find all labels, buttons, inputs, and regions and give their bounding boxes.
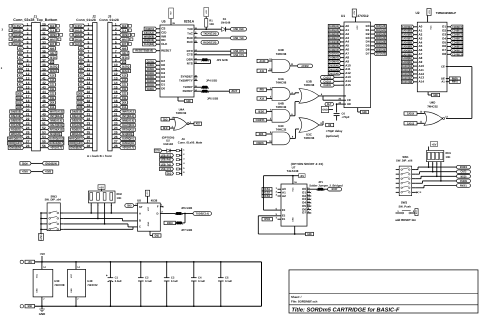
svg-text:/E36: /E36 (258, 109, 264, 113)
svg-text:GND: GND (147, 221, 150, 226)
svg-text:0.1uF: 0.1uF (145, 280, 152, 283)
svg-text:RESET55(B16): RESET55(B16) (135, 49, 153, 53)
U2 GND pin wire (428, 92, 440, 97)
power +5V to U7 VCC and E3 (264, 174, 306, 210)
svg-text:VCC: VCC (70, 273, 73, 278)
U2 address pins A0-A14 with labels (401, 25, 424, 84)
svg-text:JP6 5/2B: JP6 5/2B (181, 207, 192, 210)
svg-text:USB_RTS: USB_RTS (161, 153, 171, 157)
svg-text:GND: GND (186, 99, 190, 103)
svg-text:RXD0(C16): RXD0(C16) (203, 40, 216, 44)
svg-text:ROMEN: ROMEN (460, 165, 467, 169)
svg-text:D1B: D1B (17, 96, 21, 100)
svg-text:+5V(A17): +5V(A17) (122, 146, 134, 150)
svg-text:TXD0(C14): TXD0(C14) (203, 32, 216, 36)
svg-text:25: 25 (26, 131, 30, 135)
svg-text:45: 45 (42, 95, 46, 99)
svg-text:D7(A20): D7(A20) (72, 123, 82, 127)
svg-text:A3: A3 (19, 74, 22, 78)
svg-text:GND: GND (28, 304, 32, 308)
svg-text:17: 17 (87, 95, 91, 99)
svg-text:RESET: RESET (122, 33, 130, 37)
svg-text:50: 50 (42, 117, 46, 121)
power +5V label above U2 (427, 9, 431, 23)
IC U3E power unit 74HC08 (33, 262, 65, 307)
svg-text:M1: M1 (50, 60, 53, 64)
svg-text:8: 8 (115, 54, 117, 58)
svg-text:GND(B24): GND(B24) (70, 146, 82, 150)
svg-text:/CS3: /CS3 (264, 194, 270, 198)
svg-text:WAIT(A13: WAIT(A13 (122, 110, 134, 114)
svg-text:CTS: CTS (187, 53, 193, 57)
svg-text:D0A: D0A (122, 101, 126, 105)
svg-text:11: 11 (114, 68, 118, 72)
svg-text:CLK: CLK (122, 28, 126, 32)
svg-text:51: 51 (42, 122, 46, 126)
wire CTS (198, 54, 231, 56)
svg-text:CNT2: CNT2 (461, 170, 467, 174)
svg-text:U1: U1 (341, 14, 345, 18)
svg-text:29: 29 (42, 22, 46, 26)
resistor network RN2 10K (88, 191, 122, 207)
resistor network RN1 10K (426, 151, 451, 166)
svg-text:SW_DIP_x04: SW_DIP_x04 (45, 199, 62, 202)
svg-text:D6(B20): D6(B20) (11, 119, 21, 123)
svg-text:RN2: RN2 (117, 193, 123, 196)
svg-text:E3: E3 (282, 209, 286, 212)
diode D1 1N4148 (221, 18, 231, 32)
svg-text:+5V(A17): +5V(A17) (50, 146, 62, 150)
svg-text:Title: SORDm5 CARTRIDGE for BA: Title: SORDm5 CARTRIDGE for BASIC-F (292, 307, 400, 314)
svg-text:A7: A7 (80, 55, 83, 59)
svg-text:74HC08: 74HC08 (304, 136, 315, 140)
svg-text:GND: GND (70, 288, 73, 293)
svg-text:9: 9 (115, 58, 117, 62)
svg-text:D1B: D1B (78, 96, 82, 100)
svg-text:WR(A21): WR(A21) (72, 132, 82, 136)
svg-text:USB_RxD: USB_RxD (161, 158, 171, 162)
jumper JP5 on RxRDY (198, 90, 230, 101)
svg-text:3: 3 (88, 31, 90, 35)
svg-text:GND: GND (292, 217, 295, 222)
svg-text:SW_Push: SW_Push (398, 205, 411, 208)
svg-text:WAIT: WAIT (122, 37, 128, 41)
svg-text:(A11): (A11) (75, 37, 82, 41)
gate U3C 74HC08 (299, 118, 323, 141)
svg-text:A14: A14 (50, 74, 55, 78)
svg-text:6: 6 (27, 45, 29, 49)
svg-text:A8: A8 (80, 51, 83, 55)
U5 left control pins with labels (133, 27, 171, 53)
switch SW3 SW_DIP_x04 (44, 195, 64, 231)
svg-text:U2: U2 (415, 11, 419, 15)
U7 address inputs A0 A1 A2 (262, 187, 286, 198)
svg-text:22: 22 (26, 117, 30, 121)
svg-text:D: D (157, 212, 159, 215)
svg-text:A5: A5 (80, 64, 83, 68)
svg-text:NMI: NMI (50, 46, 55, 50)
svg-text:(+5V): (+5V) (75, 24, 82, 28)
svg-text:14: 14 (26, 81, 30, 85)
wire RxD to USB_TxD (198, 37, 231, 39)
svg-text:A0: A0 (19, 87, 22, 91)
U2 CE pin wire to U4D (441, 65, 472, 118)
net tie labels below J1 row1 (20, 161, 59, 165)
svg-text:53: 53 (42, 131, 46, 135)
net label RD input U3A (257, 88, 267, 91)
net label USB_TxD (231, 36, 247, 40)
svg-text:CE: CE (347, 99, 351, 102)
svg-text:D4(B19): D4(B19) (72, 110, 82, 114)
note OPTION D2 1N4148 (162, 135, 175, 146)
label RST right of SW2 (415, 209, 418, 216)
svg-text:A0: A0 (80, 87, 83, 91)
svg-text:74HC08: 74HC08 (276, 80, 287, 84)
gate U3B 74HC08 (299, 80, 346, 104)
svg-text:File: SORDM5F.sch: File: SORDM5F.sch (291, 300, 318, 304)
svg-text:RTS: RTS (187, 61, 193, 65)
svg-text:10K: 10K (209, 23, 214, 26)
svg-text:CE: CE (441, 65, 445, 68)
svg-text:OE: OE (347, 103, 351, 106)
svg-text:20: 20 (26, 108, 30, 112)
svg-text:GND(B24): GND(B24) (9, 146, 21, 150)
svg-text:8251A: 8251A (184, 20, 195, 24)
svg-text:16: 16 (114, 90, 118, 94)
+5V symbol on rail (40, 252, 45, 263)
svg-text:46: 46 (42, 99, 46, 103)
svg-text:INT(B14): INT(B14) (122, 114, 134, 118)
svg-text:HALT: HALT (50, 51, 56, 55)
svg-text:+5V: +5V (432, 143, 437, 146)
svg-text:74HC08: 74HC08 (276, 52, 287, 56)
svg-text:A1: A1 (19, 83, 22, 87)
svg-text:CAD14(B8): CAD14(B8) (402, 80, 412, 84)
wires SW1 rows to net labels with RN1 pulldowns (415, 162, 456, 188)
gate U3D 74HC08 (268, 48, 298, 72)
svg-text:12: 12 (26, 72, 30, 76)
net label USB_RxD (231, 27, 247, 31)
svg-text:15: 15 (114, 86, 118, 90)
svg-text:BUSRQ: BUSRQ (50, 64, 58, 68)
svg-text:D1A: D1A (122, 105, 126, 109)
svg-text:49: 49 (42, 113, 46, 117)
svg-text:CS3: CS3 (50, 92, 55, 96)
svg-text:25: 25 (114, 131, 118, 135)
svg-text:BOOT: BOOT (332, 187, 338, 191)
svg-text:6: 6 (115, 45, 117, 49)
net label A13F input U3D (257, 59, 268, 62)
net label BFR input U4A (161, 126, 170, 129)
svg-text:A14: A14 (122, 74, 127, 78)
svg-text:VCC: VCC (430, 25, 433, 30)
svg-text:16: 16 (87, 90, 91, 94)
capacitor C3 0.1uF (164, 261, 178, 307)
net label GND to U8 ST (125, 203, 138, 208)
svg-text:14: 14 (87, 81, 91, 85)
svg-text:48: 48 (42, 108, 46, 112)
U8 GND pin wire (150, 231, 161, 237)
IC U1 27C512 EPROM (341, 14, 371, 108)
svg-text:A1: A1 (80, 83, 83, 87)
U1 data pins D0-D7 output labels (366, 24, 387, 56)
svg-text:14: 14 (114, 81, 118, 85)
svg-text:(A12): (A12) (75, 33, 82, 37)
svg-text:RxRDY: RxRDY (183, 89, 193, 93)
connector J3 Conn_01x28 (99, 14, 135, 151)
svg-text:9: 9 (88, 58, 90, 62)
svg-text:+5V: +5V (28, 260, 33, 264)
svg-text:13: 13 (114, 77, 118, 81)
svg-text:USB_CTS: USB_CTS (234, 53, 244, 57)
svg-text:NMI(A14): NMI(A14) (122, 119, 134, 123)
svg-text:CNSW4: CNSW4 (460, 179, 468, 183)
svg-text:MREQ(B22): MREQ(B22) (69, 137, 82, 141)
svg-text:2: 2 (88, 27, 90, 31)
svg-text:34: 34 (42, 45, 46, 49)
svg-text:A4: A4 (19, 69, 22, 73)
IC U7 74LS138 decoder (281, 165, 307, 226)
svg-text:(A13): (A13) (75, 28, 82, 32)
svg-text:74HC02: 74HC02 (176, 111, 187, 115)
svg-text:28: 28 (26, 144, 30, 148)
svg-text:A15: A15 (260, 69, 265, 73)
svg-text:+70pF delay: +70pF delay (326, 129, 343, 133)
svg-text:GND: GND (36, 288, 39, 293)
svg-text:+5V: +5V (99, 186, 104, 189)
svg-text:D0: D0 (161, 87, 165, 91)
svg-text:26: 26 (87, 135, 91, 139)
diode D2 with GTB label (154, 149, 176, 153)
svg-text:40: 40 (42, 72, 46, 76)
svg-text:B: B (139, 220, 141, 223)
svg-text:CLK(B4): CLK(B4) (144, 42, 154, 46)
wires SW3 to U8 inputs with RN2 pullups (64, 203, 138, 229)
net label TXD0(C14) on TxC (201, 32, 219, 36)
svg-text:30: 30 (42, 27, 46, 31)
svg-text:52: 52 (42, 126, 46, 130)
power input port VCC circle (20, 260, 35, 264)
svg-text:RD(B21): RD(B21) (72, 128, 82, 132)
svg-text:RESET: RESET (161, 49, 171, 53)
svg-text:CS4: CS4 (122, 96, 127, 100)
svg-text:TMM23256BLP: TMM23256BLP (436, 11, 456, 15)
svg-text:A = back B = front: A = back B = front (87, 154, 112, 158)
svg-text:19: 19 (114, 104, 118, 108)
svg-text:A9: A9 (80, 46, 83, 50)
svg-text:B05: B05 (259, 132, 264, 136)
svg-text:18: 18 (26, 99, 30, 103)
U2 data pins O1-O8 labels (442, 25, 463, 57)
svg-text:10: 10 (114, 63, 118, 67)
svg-text:K: K (420, 191, 422, 194)
jumper JP4 on TxRDY (198, 86, 210, 90)
svg-text:D2B: D2B (78, 101, 82, 105)
svg-text:CS4: CS4 (50, 96, 55, 100)
svg-text:NMI(A14): NMI(A14) (50, 119, 62, 123)
svg-text:21: 21 (87, 113, 91, 117)
svg-text:20: 20 (87, 108, 91, 112)
svg-text:CS3: CS3 (122, 92, 127, 96)
svg-text:GND: GND (39, 312, 45, 316)
connector J2 Conn_01x28 (68, 14, 97, 151)
svg-text:(+5V): (+5V) (14, 24, 21, 28)
svg-text:38: 38 (42, 63, 46, 67)
net label TXD0(C14) from JP6 (193, 212, 212, 216)
svg-text:(optional): (optional) (326, 134, 339, 138)
svg-text:BUSAK: BUSAK (50, 69, 57, 73)
svg-text:+5VA: +5VA (22, 170, 28, 174)
svg-text:GND: GND (127, 204, 131, 208)
svg-text:add RESET btn: add RESET btn (395, 218, 416, 222)
connector J4 Conn_01x06_Mate (178, 137, 203, 176)
svg-text:5: 5 (27, 40, 29, 44)
svg-text:11: 11 (87, 68, 91, 72)
svg-text:Sheet: /: Sheet: / (291, 295, 302, 299)
power +5V label above U5 (169, 8, 176, 25)
svg-text:HALT(B15: HALT(B15 (122, 123, 134, 127)
note +70pF delay optional (326, 123, 343, 138)
svg-text:RFSH: RFSH (122, 55, 128, 59)
svg-text:BUSAK(B17): BUSAK(B17) (49, 141, 63, 145)
svg-text:17: 17 (26, 95, 30, 99)
svg-text:10: 10 (26, 63, 30, 67)
svg-text:D5(A19): D5(A19) (72, 114, 82, 118)
svg-text:+5V: +5V (428, 9, 431, 13)
svg-text:74LS138: 74LS138 (287, 169, 299, 173)
svg-text:19: 19 (26, 104, 30, 108)
net label A14 input U3A (257, 97, 267, 100)
svg-text:4: 4 (115, 36, 117, 40)
U1 CE pin wire from U3B (323, 96, 351, 102)
svg-text:O7: O7 (302, 211, 306, 215)
GND symbol below rail (39, 305, 45, 316)
svg-text:15: 15 (26, 86, 30, 90)
svg-text:2: 2 (115, 27, 117, 31)
svg-text:+70pF: +70pF (342, 116, 350, 119)
svg-text:C4: C4 (198, 277, 202, 280)
power +5V label above RN1 (429, 142, 438, 151)
IC U8 monostable (137, 198, 160, 231)
svg-text:Conn_02x28_Top_Bottom: Conn_02x28_Top_Bottom (13, 18, 57, 22)
power input port GND circle (20, 304, 35, 308)
svg-text:41: 41 (42, 77, 46, 81)
svg-text:BUSRQ(A16): BUSRQ(A16) (49, 137, 63, 141)
IC U4E power unit 74HC02 (68, 261, 99, 307)
svg-text:74HC02: 74HC02 (87, 283, 98, 287)
svg-text:74HC32: 74HC32 (276, 105, 287, 109)
wire U3C output to U1 OE net (322, 121, 324, 125)
svg-text:TXD0(C14): TXD0(C14) (196, 212, 209, 216)
svg-text:/INT: /INT (232, 89, 238, 93)
net label RXD0(C16) on RxC (201, 41, 219, 45)
svg-text:E1: E1 (282, 218, 286, 221)
U5 data bus pins D7-D0 (146, 59, 166, 91)
svg-text:CD7(B13): CD7(B13) (452, 52, 462, 56)
svg-text:35: 35 (42, 49, 46, 53)
svg-text:RXDI: RXDI (167, 221, 173, 225)
right end vertical joining rails (261, 262, 263, 306)
svg-text:JP4 5/2D: JP4 5/2D (206, 79, 217, 82)
svg-text:TxD: TxD (187, 27, 194, 31)
U1 OE pin wire (337, 101, 351, 106)
svg-text:CAD15: CAD15 (324, 83, 332, 87)
svg-text:9: 9 (27, 58, 29, 62)
net label A1D output U4A (194, 122, 202, 125)
svg-text:A15: A15 (50, 78, 55, 82)
svg-text:ST: ST (139, 206, 143, 209)
svg-text:D7: D7 (366, 52, 370, 56)
net label USB_RTS (231, 50, 247, 53)
svg-text:BUSRQ: BUSRQ (122, 64, 130, 68)
ground label left of C6 (322, 106, 337, 120)
svg-text:IORQ(A23): IORQ(A23) (8, 141, 21, 145)
svg-text:CD7(A23): CD7(A23) (376, 52, 386, 56)
svg-text:U5: U5 (161, 20, 165, 24)
svg-text:+5V: +5V (40, 252, 45, 256)
net label CAD14 input U4D (404, 112, 417, 115)
svg-text:56: 56 (42, 144, 46, 148)
svg-text:RMSEL: RMSEL (460, 184, 468, 188)
svg-text:23: 23 (114, 122, 118, 126)
svg-text:28: 28 (114, 144, 118, 148)
svg-text:C1: C1 (115, 277, 119, 280)
net label ROM05 input U4C (254, 141, 267, 144)
svg-text:8: 8 (27, 54, 29, 58)
svg-text:/PHI: /PHI (264, 217, 270, 221)
bottom GND rail (35, 305, 262, 307)
svg-text:MOD3: MOD3 (461, 174, 467, 178)
svg-text:GND: GND (322, 109, 328, 112)
svg-text:HALT: HALT (122, 51, 128, 55)
svg-text:3: 3 (115, 31, 117, 35)
svg-text:39: 39 (42, 68, 46, 72)
svg-text:44: 44 (42, 90, 46, 94)
svg-text:1: 1 (115, 22, 117, 26)
svg-text:A15: A15 (345, 83, 351, 87)
svg-text:INT(B14): INT(B14) (50, 114, 62, 118)
svg-text:A6: A6 (19, 60, 22, 64)
gate U4A 74HC02 (170, 107, 195, 130)
net label USB_CTS (231, 53, 247, 56)
svg-text:HALT(B15): HALT(B15) (50, 123, 63, 127)
svg-text:24: 24 (114, 126, 118, 130)
svg-text:23: 23 (26, 122, 30, 126)
svg-text:USB_CTS: USB_CTS (161, 167, 171, 171)
net labels CAD13-CAD15 rounded (321, 75, 341, 87)
svg-text:33: 33 (42, 40, 46, 44)
svg-text:11: 11 (26, 68, 30, 72)
svg-text:RxD: RxD (187, 36, 194, 40)
svg-text:27: 27 (114, 140, 118, 144)
svg-text:20: 20 (114, 108, 118, 112)
svg-text:M1(B16): M1(B16) (50, 132, 60, 136)
net label INT (230, 90, 240, 93)
U8 F pin no connect (160, 204, 164, 208)
svg-text:12: 12 (114, 72, 118, 76)
svg-text:(OPTION SHORT 4~15): (OPTION SHORT 4~15) (291, 162, 323, 166)
capacitor C2 0.1uF (138, 261, 152, 307)
svg-text:A4: A4 (80, 69, 83, 73)
svg-text:32: 32 (42, 36, 46, 40)
svg-text:BFR: BFR (163, 126, 167, 130)
SW1 row6 no connect (415, 191, 421, 194)
svg-text:DLY: DLY (327, 102, 332, 106)
svg-text:10K: 10K (446, 156, 451, 159)
svg-text:28: 28 (87, 144, 91, 148)
svg-text:47: 47 (42, 104, 46, 108)
U7 outputs O0-O7 (302, 187, 311, 215)
